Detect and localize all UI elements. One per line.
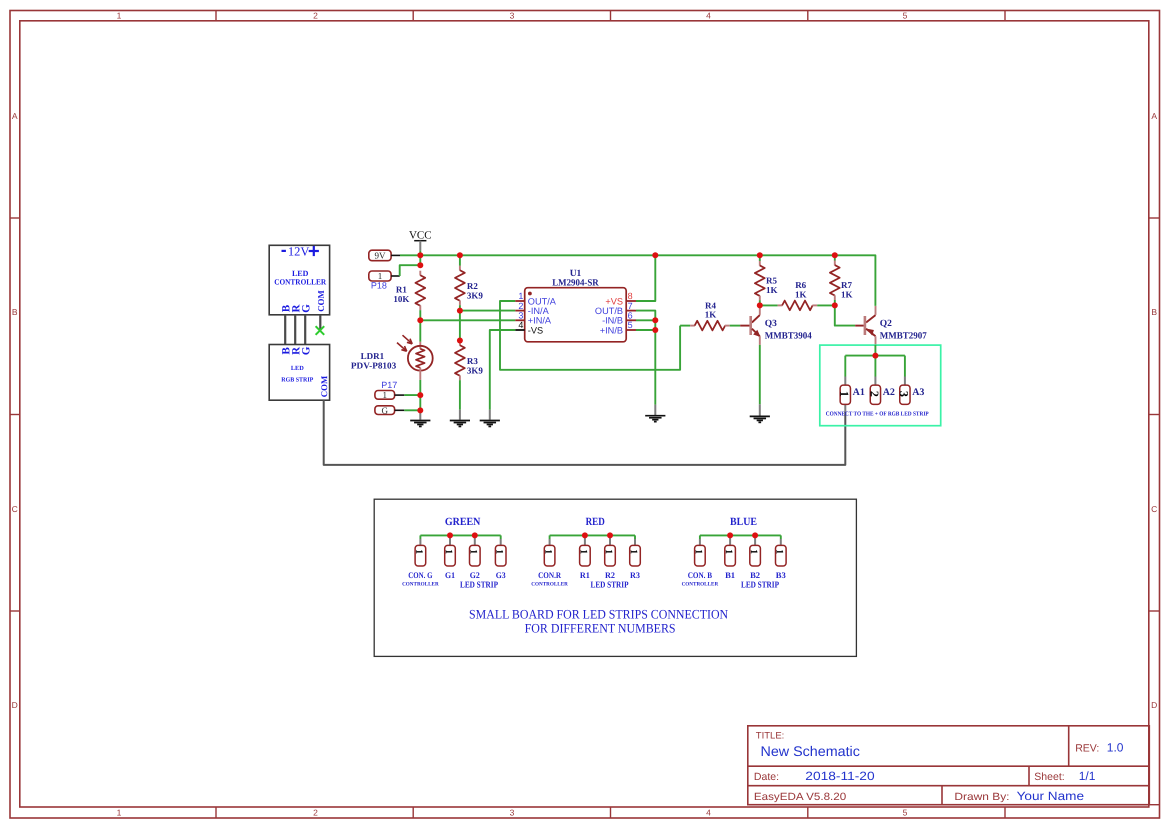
- wire strip COM to A1 connector: [324, 400, 846, 465]
- svg-text:1K: 1K: [705, 310, 717, 320]
- junction: [472, 532, 478, 538]
- ground R3: [459, 410, 461, 420]
- wire Q3 emitter to ground: [759, 345, 761, 404]
- svg-text:OUT/A: OUT/A: [528, 296, 557, 306]
- LED controller box: [269, 245, 329, 314]
- svg-text:CON.R: CON.R: [538, 570, 562, 580]
- controller COM pin stub: [319, 315, 321, 331]
- svg-text:1/1: 1/1: [1079, 769, 1096, 783]
- svg-text:LDR1: LDR1: [361, 351, 385, 361]
- A1 pin stub: [844, 377, 846, 386]
- U1 pin 5 +IN/B: [626, 329, 636, 331]
- connector CON.R: [544, 545, 555, 566]
- svg-text:8: 8: [628, 291, 633, 301]
- svg-text:OUT/B: OUT/B: [595, 306, 623, 316]
- no-connect flag X: [316, 326, 325, 335]
- wire LDR1 to P17 node: [419, 380, 421, 411]
- connector R2: [605, 545, 616, 566]
- wire RED bus: [550, 534, 635, 536]
- junction G/ground: [417, 407, 423, 413]
- svg-text:-IN/B: -IN/B: [602, 316, 623, 326]
- wire P18 to node: [400, 265, 421, 276]
- svg-text:CONTROLLER: CONTROLLER: [531, 582, 568, 588]
- junction P17/LDR1: [417, 392, 423, 398]
- svg-text:B2: B2: [750, 570, 760, 580]
- junction: [582, 532, 588, 538]
- connector A3: [900, 385, 910, 404]
- LDR1 arrows: [403, 335, 413, 344]
- junction: [607, 532, 613, 538]
- svg-text:TITLE:: TITLE:: [756, 731, 785, 742]
- connector A2: [870, 385, 880, 404]
- strip pin label COM: [321, 376, 327, 397]
- svg-text:CONTROLLER: CONTROLLER: [682, 582, 719, 588]
- connector CON. G pin stub: [419, 539, 421, 545]
- svg-text:CONTROLLER: CONTROLLER: [402, 582, 439, 588]
- svg-text:1: 1: [117, 808, 122, 818]
- connector CON. B: [695, 545, 706, 566]
- connector R3 pin stub: [634, 539, 636, 545]
- svg-text:R3: R3: [467, 356, 478, 366]
- A3 pin stub: [904, 377, 906, 386]
- svg-text:R5: R5: [766, 276, 777, 286]
- svg-text:R1: R1: [580, 570, 590, 580]
- svg-text:A1: A1: [853, 387, 865, 398]
- ground U1 B-half: [654, 405, 656, 415]
- connector R1 pin stub: [584, 537, 586, 546]
- svg-text:GREEN: GREEN: [445, 516, 481, 528]
- svg-text:P18: P18: [371, 281, 387, 291]
- U1 pin 2 -IN/A: [515, 310, 525, 312]
- wire +VS to supply rail: [636, 255, 655, 301]
- svg-text:+IN/A: +IN/A: [528, 316, 552, 326]
- svg-text:-IN/A: -IN/A: [528, 306, 550, 316]
- svg-text:CON. G: CON. G: [408, 570, 433, 580]
- label -12V+: [282, 250, 286, 252]
- connector B2: [750, 545, 761, 566]
- connector B2 pin stub: [754, 537, 756, 546]
- svg-text:LM2904-SR: LM2904-SR: [552, 278, 599, 288]
- svg-text:B3: B3: [776, 570, 786, 580]
- svg-text:4: 4: [706, 808, 711, 818]
- resistor R4 1K: [680, 325, 690, 327]
- svg-text:9V: 9V: [374, 251, 386, 261]
- title block: [748, 726, 1150, 805]
- connector R2 pin stub: [609, 537, 611, 546]
- svg-text:G3: G3: [496, 570, 506, 580]
- svg-text:PDV-P8103: PDV-P8103: [351, 360, 397, 370]
- svg-text:Q3: Q3: [765, 319, 777, 329]
- svg-text:3: 3: [510, 808, 515, 818]
- resistor R1 10K: [419, 271, 421, 276]
- svg-text:1K: 1K: [841, 289, 853, 299]
- svg-text:U1: U1: [570, 269, 582, 279]
- svg-text:A3: A3: [912, 387, 924, 398]
- svg-text:Drawn By:: Drawn By:: [954, 791, 1009, 803]
- svg-text:3: 3: [510, 10, 515, 20]
- svg-text:Date:: Date:: [754, 771, 779, 783]
- connector G2: [470, 545, 481, 566]
- U1 pin 4 -VS: [515, 329, 525, 331]
- wire 9V supply rail: [400, 255, 875, 306]
- ground Q3: [759, 404, 761, 415]
- junction R2/R3/-IN A: [457, 308, 463, 314]
- svg-text:RGB STRIP: RGB STRIP: [281, 376, 313, 383]
- svg-text:P17: P17: [381, 380, 397, 390]
- U1 pin 8 +VS: [626, 300, 636, 302]
- connector G3 pin stub: [500, 539, 502, 545]
- strip pin label G: [302, 347, 309, 355]
- connector B1 pin stub: [729, 537, 731, 546]
- junction 9V/R1 top: [417, 252, 423, 258]
- junction R3 top: [457, 338, 463, 344]
- svg-text:B: B: [1151, 307, 1157, 317]
- svg-text:1K: 1K: [795, 289, 807, 299]
- svg-text:2: 2: [518, 301, 523, 311]
- resistor R6 1K: [760, 304, 778, 306]
- svg-text:4: 4: [706, 10, 711, 20]
- U1 pin 7 OUT/B: [626, 310, 636, 312]
- junction R6/R7/Q2 base: [832, 302, 838, 308]
- connector R3: [630, 545, 641, 566]
- svg-text:EasyEDA V5.8.20: EasyEDA V5.8.20: [754, 791, 846, 803]
- svg-text:REV:: REV:: [1075, 742, 1099, 754]
- connector B3 pin stub: [780, 539, 782, 545]
- svg-text:D: D: [1151, 700, 1157, 710]
- svg-text:RED: RED: [586, 516, 605, 528]
- svg-text:3: 3: [518, 311, 523, 321]
- svg-text:12V: 12V: [288, 245, 310, 259]
- svg-text:B1: B1: [725, 570, 735, 580]
- svg-text:B: B: [12, 307, 18, 317]
- junction R5/R6/Q3 collector: [757, 302, 763, 308]
- junction -IN B: [652, 317, 658, 323]
- svg-text:R2: R2: [467, 281, 478, 291]
- junction 9V/R5 top: [757, 252, 763, 258]
- svg-text:D: D: [12, 700, 18, 710]
- svg-text:7: 7: [628, 301, 633, 311]
- wire OUT/A to R4: [500, 301, 680, 370]
- resistor R5 1K: [759, 255, 761, 261]
- netflag P17 pin 1: [375, 391, 395, 400]
- svg-text:MMBT3904: MMBT3904: [765, 332, 812, 342]
- wire OUT/B to ground: [636, 311, 655, 405]
- connector G1 pin stub: [449, 537, 451, 546]
- svg-text:New Schematic: New Schematic: [761, 743, 860, 759]
- U1 pin 1 OUT/A: [515, 300, 525, 302]
- ground -VS: [489, 410, 491, 420]
- wire node R1 top: [419, 255, 421, 265]
- strip pin label B: [282, 348, 289, 355]
- junction 9V/R2 top: [457, 252, 463, 258]
- resistor R2 3K9: [459, 255, 461, 265]
- wire controller G to strip G: [304, 315, 306, 345]
- svg-text:1: 1: [383, 390, 388, 400]
- svg-text:R6: R6: [795, 280, 806, 290]
- controller pin label G: [302, 305, 309, 313]
- wire +IN/B: [636, 329, 655, 331]
- connector CON. B pin stub: [699, 539, 701, 545]
- strip pin label R: [292, 347, 299, 355]
- junction: [727, 532, 733, 538]
- svg-text:R2: R2: [605, 570, 615, 580]
- svg-text:SMALL BOARD FOR LED STRIPS CON: SMALL BOARD FOR LED STRIPS CONNECTION: [469, 606, 729, 621]
- svg-text:CONNECT TO THE + OF RGB LED ST: CONNECT TO THE + OF RGB LED STRIP: [826, 412, 929, 418]
- svg-text:3K9: 3K9: [467, 290, 484, 300]
- A2 pin stub: [874, 377, 876, 386]
- connector G3: [495, 545, 506, 566]
- svg-text:1K: 1K: [766, 285, 778, 295]
- U1 pin 6 -IN/B: [626, 319, 636, 321]
- svg-text:+IN/B: +IN/B: [600, 325, 623, 335]
- svg-text:6: 6: [628, 311, 633, 321]
- svg-text:5: 5: [903, 10, 908, 20]
- controller pin label B: [282, 305, 289, 312]
- wire -IN/B: [636, 319, 655, 321]
- svg-text:A: A: [12, 111, 18, 121]
- U1 pin 3 +IN/A: [515, 319, 525, 321]
- junction R1/LDR1/+IN A: [417, 317, 423, 323]
- connector CON. G: [415, 545, 426, 566]
- wire controller B to strip B: [284, 315, 286, 345]
- connector B1: [725, 545, 736, 566]
- junction: [447, 532, 453, 538]
- svg-text:LED: LED: [291, 365, 304, 372]
- svg-text:5: 5: [903, 808, 908, 818]
- svg-text:1.0: 1.0: [1107, 740, 1124, 754]
- wire Q2 to A connectors: [874, 345, 876, 377]
- svg-text:CONTROLLER: CONTROLLER: [274, 277, 326, 286]
- svg-text:LED STRIP: LED STRIP: [741, 580, 779, 590]
- wire R7 to Q2 base: [835, 305, 855, 325]
- svg-text:2: 2: [313, 808, 318, 818]
- svg-text:1: 1: [117, 10, 122, 20]
- photoresistor LDR1 PDV-P8103: [419, 342, 421, 349]
- junction 9V/R7 top: [832, 252, 838, 258]
- transistor Q2 MMBT2907: [875, 306, 877, 315]
- svg-text:R7: R7: [841, 280, 852, 290]
- wire -IN/A to R2/R3 node: [460, 310, 515, 312]
- junction +IN B: [652, 327, 658, 333]
- junction: [752, 532, 758, 538]
- netflag G: [375, 406, 395, 415]
- svg-text:G1: G1: [445, 570, 455, 580]
- connector R1: [580, 545, 591, 566]
- junction Q2/A2: [872, 353, 878, 359]
- svg-text:R3: R3: [630, 570, 640, 580]
- svg-text:Your Name: Your Name: [1017, 789, 1085, 803]
- connector G1: [445, 545, 456, 566]
- wire GREEN bus: [420, 534, 500, 536]
- svg-text:2018-11-20: 2018-11-20: [805, 769, 875, 783]
- wire BLUE bus: [700, 534, 781, 536]
- netflag 9V: [369, 250, 391, 261]
- svg-text:C: C: [1151, 504, 1157, 514]
- svg-text:C: C: [12, 504, 18, 514]
- controller pin label R: [292, 304, 299, 312]
- junction 9V/+VS: [652, 252, 658, 258]
- svg-text:BLUE: BLUE: [730, 516, 757, 528]
- svg-text:-VS: -VS: [528, 325, 543, 335]
- svg-text:Sheet:: Sheet:: [1034, 771, 1064, 783]
- svg-text:A2: A2: [883, 387, 895, 398]
- transistor Q3 MMBT3904: [759, 307, 761, 315]
- small board box: [374, 499, 856, 656]
- resistor R7 1K: [834, 255, 836, 260]
- junction P18/R1: [417, 262, 423, 268]
- svg-text:G2: G2: [470, 570, 480, 580]
- svg-text:10K: 10K: [393, 294, 409, 304]
- netflag P18 pin 1: [369, 271, 391, 281]
- svg-text:5: 5: [628, 320, 633, 330]
- connector G2 pin stub: [474, 537, 476, 546]
- svg-text:R1: R1: [396, 284, 407, 294]
- svg-text:3K9: 3K9: [467, 366, 484, 376]
- svg-text:CON. B: CON. B: [688, 570, 713, 580]
- svg-text:A: A: [1151, 111, 1157, 121]
- op-amp U1 LM2904-SR: [525, 288, 627, 342]
- wire controller R to strip R: [294, 315, 296, 345]
- svg-text:LED STRIP: LED STRIP: [591, 580, 629, 590]
- wire -VS to ground: [490, 330, 515, 410]
- connector B3: [776, 545, 787, 566]
- svg-text:Q2: Q2: [880, 319, 892, 329]
- svg-text:4: 4: [518, 320, 523, 330]
- svg-text:VCC: VCC: [409, 229, 432, 241]
- ground P17 node: [419, 410, 421, 419]
- svg-text:MMBT2907: MMBT2907: [880, 332, 927, 342]
- highlight box RGB LED strip connection: [820, 345, 941, 426]
- svg-text:+VS: +VS: [605, 296, 623, 306]
- svg-text:1: 1: [518, 291, 523, 301]
- svg-text:FOR DIFFERENT NUMBERS: FOR DIFFERENT NUMBERS: [525, 621, 676, 636]
- connector CON.R pin stub: [549, 539, 551, 545]
- svg-text:G: G: [382, 405, 389, 415]
- svg-text:LED STRIP: LED STRIP: [460, 580, 498, 590]
- svg-text:2: 2: [313, 10, 318, 20]
- wire +IN/A to R1/LDR node: [420, 319, 515, 321]
- resistor R3 3K9: [459, 341, 461, 346]
- connector A1: [840, 385, 850, 404]
- controller pin label COM: [318, 290, 324, 311]
- LED RGB strip box: [269, 345, 329, 401]
